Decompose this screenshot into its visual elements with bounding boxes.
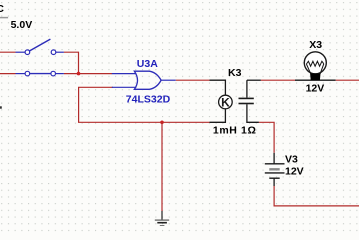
wire: battery negative to bottom right edge bbox=[274, 186, 359, 206]
wire: junction to ground bbox=[161, 122, 163, 211]
svg-text:U3A: U3A bbox=[137, 58, 158, 70]
relay K3 contact bbox=[239, 80, 261, 122]
wire: gate output to relay coil bbox=[176, 79, 210, 81]
ground bbox=[155, 211, 169, 226]
svg-text:K3: K3 bbox=[228, 67, 242, 79]
junction node bbox=[77, 72, 81, 76]
svg-text:5.0V: 5.0V bbox=[11, 19, 33, 31]
wire: contact to lamp bbox=[261, 79, 295, 81]
lamp X3 bbox=[295, 52, 336, 80]
wire: left edge to switch J1 (row 1) bbox=[0, 51, 16, 53]
relay K3 coil bbox=[210, 80, 233, 122]
cut-off component mark at left edge bbox=[0, 106, 2, 108]
wire: switch J1 output to junction bbox=[64, 52, 79, 73]
wire: gate lower input loop to bottom rail bbox=[79, 87, 162, 122]
svg-text:1mH 1Ω: 1mH 1Ω bbox=[213, 124, 257, 136]
battery V3 bbox=[265, 153, 285, 186]
power symbol VCC label (cut off at left edge) bbox=[0, 3, 8, 18]
wire: switch J2 output to gate input row bbox=[64, 73, 112, 75]
switch J2 (closed, bottom row) bbox=[16, 71, 64, 76]
bottom rail wire: lower loop to coil bbox=[162, 121, 210, 123]
svg-text:74LS32D: 74LS32D bbox=[126, 93, 171, 105]
svg-text:X3: X3 bbox=[309, 39, 322, 51]
svg-text:V3: V3 bbox=[285, 154, 298, 166]
switch J1 (open, top row) bbox=[16, 39, 64, 54]
wire: lamp to right edge bbox=[336, 79, 359, 81]
svg-text:VCC: VCC bbox=[0, 3, 4, 15]
svg-text:12V: 12V bbox=[285, 165, 304, 177]
svg-text:K: K bbox=[221, 96, 230, 110]
svg-text:12V: 12V bbox=[306, 83, 325, 95]
wire: left edge to switch J2 (row 2) bbox=[0, 73, 16, 75]
wire: contact bottom to battery bbox=[259, 122, 274, 153]
op-amp U3A OR gate 74LS32D bbox=[112, 71, 176, 89]
bottom rail junction node bbox=[160, 121, 164, 125]
